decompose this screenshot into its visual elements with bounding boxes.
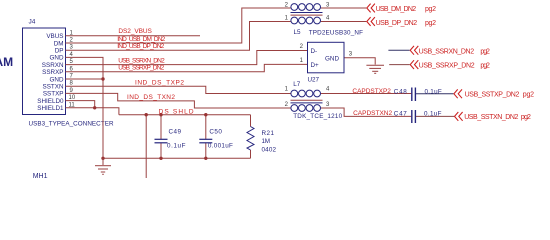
svg-text:USB3_TYPEA_CONNECTER: USB3_TYPEA_CONNECTER [29, 121, 114, 128]
svg-text:IND_DS_TXP2: IND_DS_TXP2 [135, 79, 184, 86]
wire pin6 SSRXP to U27 D+ [66, 64, 308, 71]
offpage connector USB_SSTXN_DN2 [455, 112, 463, 121]
junction C49 bottom [159, 157, 162, 160]
junction DS SHLD stub [145, 113, 148, 116]
J4 pin numbers 1-11 [69, 30, 76, 108]
wire GND bottom rail [103, 157, 251, 159]
choke L5 core bars [291, 13, 323, 16]
J4 pin names [37, 33, 64, 112]
wire DS SHLD rail [119, 114, 251, 116]
offpage connector USB_SSTXP_DN2 [454, 89, 462, 98]
connector J4 [23, 28, 66, 115]
svg-text:C50: C50 [209, 129, 222, 136]
capacitor C47 [412, 110, 416, 123]
junction pin10/pin11 shield [93, 106, 96, 109]
svg-text:pg2: pg2 [523, 91, 534, 98]
svg-text:D-: D- [311, 48, 318, 55]
wire L7 bottom out to C47 [321, 108, 412, 116]
choke L7 top winding [291, 90, 321, 97]
svg-text:SHIELD0: SHIELD0 [37, 98, 64, 105]
svg-text:L7: L7 [293, 81, 301, 88]
svg-text:J4: J4 [29, 19, 36, 26]
svg-text:AM: AM [0, 55, 13, 69]
svg-text:USB_DM_DN2: USB_DM_DN2 [376, 6, 417, 13]
ground at GND rail [95, 158, 111, 174]
ESD device U27 [308, 42, 345, 73]
svg-text:pg2: pg2 [425, 20, 436, 27]
svg-text:SSRXP: SSRXP [42, 69, 63, 76]
svg-text:GND: GND [50, 55, 64, 62]
svg-text:MH1: MH1 [33, 173, 48, 179]
offpage stub USB_SSRXP_DN2 [389, 64, 410, 66]
wire L7 top out to C48 [321, 93, 412, 95]
offpage connector USB_DM_DN2 [367, 4, 375, 13]
svg-text:DS SHLD: DS SHLD [159, 109, 194, 116]
svg-text:SSRXN: SSRXN [42, 62, 64, 69]
svg-text:CAPDSTXP2: CAPDSTXP2 [352, 88, 391, 95]
svg-text:USB_SSTXP_DN2: USB_SSTXP_DN2 [465, 91, 520, 98]
wire pin3 DP to L5 pin1 [66, 22, 291, 51]
junction pin7 GND [101, 77, 104, 80]
offpage connector USB_DP_DN2 [367, 17, 375, 26]
svg-text:VBUS: VBUS [46, 33, 63, 40]
svg-text:USB_SSTXN_DN2: USB_SSTXN_DN2 [464, 114, 518, 121]
capacitor C48 [412, 88, 416, 102]
svg-text:L5: L5 [294, 29, 302, 36]
wire shield stub down [145, 115, 147, 178]
choke L5 bottom winding [291, 17, 321, 24]
svg-text:SHIELD1: SHIELD1 [37, 105, 64, 112]
svg-text:SSTXP: SSTXP [43, 91, 64, 98]
svg-text:DP: DP [55, 48, 64, 55]
wire pin8 SSTXN to L7 pin1 [66, 86, 291, 93]
svg-text:CAPDSTXN2: CAPDSTXN2 [353, 110, 392, 117]
svg-text:0.1uF: 0.1uF [167, 143, 186, 150]
svg-text:USB_SSRXP_DN2: USB_SSRXP_DN2 [419, 63, 475, 70]
svg-text:0402: 0402 [262, 147, 277, 154]
choke L7 core bars [291, 100, 323, 103]
offpage stub USB_SSRXN_DN2 [388, 49, 409, 51]
svg-text:TPD2EUSB30_NF: TPD2EUSB30_NF [309, 30, 363, 37]
svg-text:DS2_VBUS: DS2_VBUS [118, 28, 152, 35]
svg-text:IND_DS_TXN2: IND_DS_TXN2 [127, 94, 175, 101]
svg-text:DM: DM [54, 40, 64, 47]
svg-text:USB_SSRXN_DN2: USB_SSRXN_DN2 [419, 48, 475, 55]
capacitor C50 [199, 139, 212, 143]
offpage connector USB_SSRXP_DN2 [410, 60, 418, 69]
svg-text:IND_USB_DP_DN2: IND_USB_DP_DN2 [117, 43, 164, 50]
svg-text:C49: C49 [169, 129, 182, 136]
wire pin2 DM to L5 pin2 [66, 8, 291, 43]
svg-text:TDK_TCE_1210: TDK_TCE_1210 [293, 113, 342, 120]
wire pin1 VBUS net DS2_VBUS [66, 35, 201, 37]
wire pin5 SSRXN to U27 D- [66, 51, 308, 65]
wire pin10 SHIELD0 [66, 101, 95, 108]
svg-text:C47: C47 [394, 111, 407, 118]
junction GND rail / ground [101, 157, 104, 160]
svg-text:U27: U27 [308, 77, 320, 84]
svg-text:GND: GND [50, 76, 64, 83]
ground under U27 pin3 [366, 65, 384, 73]
junction C50 top [204, 113, 207, 116]
svg-text:pg2: pg2 [425, 6, 436, 13]
wire L5 top out [321, 7, 367, 9]
junction C50 bottom [204, 157, 207, 160]
wire pin4 GND down [66, 57, 104, 158]
svg-text:USB_SSRXN_DN2: USB_SSRXN_DN2 [118, 57, 165, 64]
choke L5 top winding [291, 4, 321, 11]
wire C48 to offpage [416, 93, 454, 95]
wire pin7 GND [66, 78, 104, 80]
resistor R21 [247, 127, 254, 151]
wire pin9 SSTXP to L7 pin2 [66, 93, 291, 108]
svg-text:C48: C48 [394, 89, 407, 96]
wire U27 pin3 to gnd [344, 58, 375, 65]
wire C47 to offpage [416, 115, 454, 117]
svg-text:D+: D+ [311, 62, 320, 69]
choke L7 bottom winding [291, 105, 321, 112]
svg-text:R21: R21 [262, 130, 275, 137]
svg-text:pg2: pg2 [480, 48, 490, 55]
wire pin11 SHIELD1 shield step [66, 108, 119, 115]
svg-text:0.001uF: 0.001uF [208, 143, 233, 150]
svg-text:USB_SSRXP_DN2: USB_SSRXP_DN2 [118, 65, 164, 72]
svg-text:USB_DP_DN2: USB_DP_DN2 [376, 20, 418, 27]
svg-text:1M: 1M [262, 138, 271, 145]
wire C50 leads [205, 115, 207, 139]
wire C49 leads [160, 115, 162, 139]
wire L5 bottom out [321, 21, 367, 23]
svg-text:GND: GND [325, 56, 339, 63]
junction C49 top [159, 113, 162, 116]
svg-text:IND_USB_DM_DN2: IND_USB_DM_DN2 [117, 36, 165, 43]
svg-text:SSTXN: SSTXN [43, 84, 64, 91]
capacitor C49 [155, 139, 168, 143]
svg-text:pg2: pg2 [480, 63, 490, 70]
offpage connector USB_SSRXN_DN2 [410, 46, 418, 55]
wire R21 leads [250, 115, 252, 127]
svg-text:pg2: pg2 [521, 114, 531, 121]
